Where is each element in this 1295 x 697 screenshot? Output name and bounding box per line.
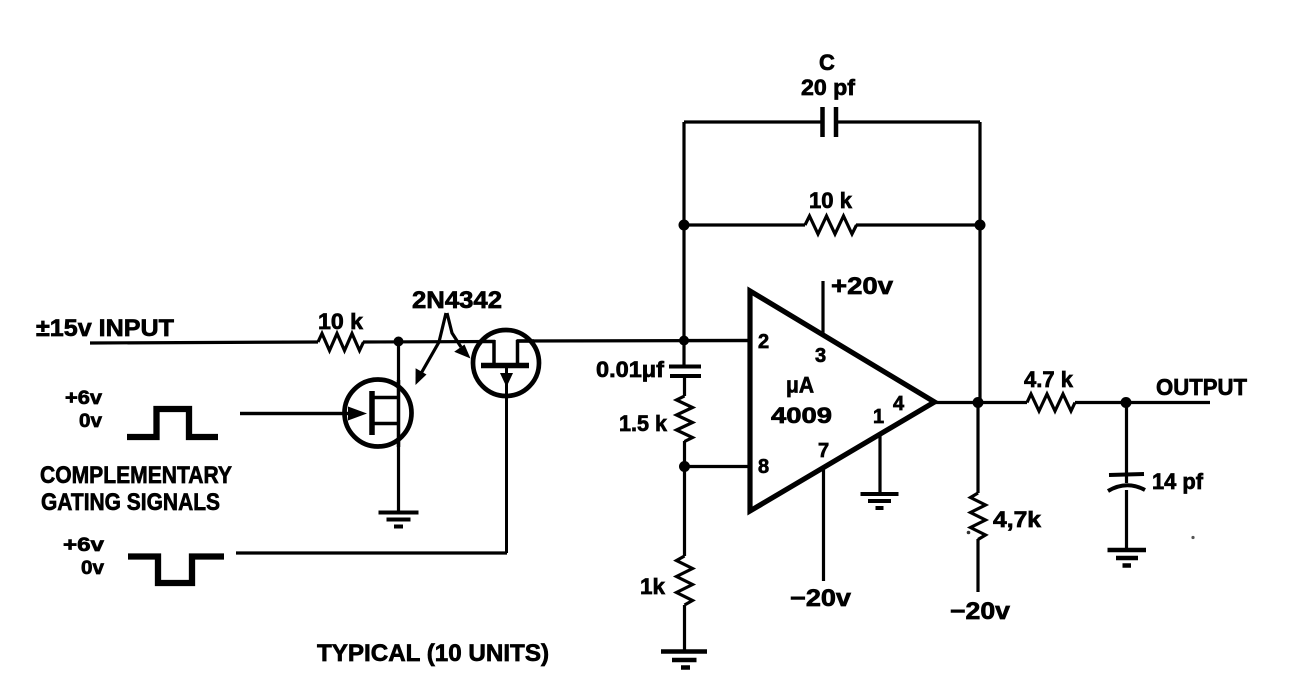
wire node E to pin 8 <box>685 465 751 468</box>
wire R3 to node E <box>683 441 686 467</box>
svg-text:2: 2 <box>758 331 769 353</box>
svg-text:+20v: +20v <box>831 273 894 300</box>
wire input line to Q2 <box>363 340 495 344</box>
wire right feedback vertical <box>978 122 981 403</box>
wire pin 7 -20v lead <box>822 468 825 581</box>
wire 10k feedback right <box>856 223 980 226</box>
svg-text:1k: 1k <box>640 574 666 599</box>
svg-text:4009: 4009 <box>771 403 832 428</box>
node G output junction dot <box>1121 397 1132 408</box>
wire node G down to C3 <box>1125 403 1128 484</box>
svg-text:7: 7 <box>818 440 829 462</box>
ground under Q1 <box>379 513 419 527</box>
wire C2 to R3 <box>683 376 686 396</box>
node C junction dot <box>679 220 690 231</box>
wire input line left <box>90 342 318 343</box>
resistor R6 4.7k to -20v <box>971 493 986 540</box>
svg-text:2N4342: 2N4342 <box>412 287 502 314</box>
wire pin 1 ground lead <box>878 434 881 492</box>
svg-text:GATING SIGNALS: GATING SIGNALS <box>41 489 220 516</box>
wire node B to pin 2 <box>684 339 750 342</box>
svg-text:0.01μf: 0.01μf <box>596 357 665 382</box>
svg-text:μA: μA <box>786 373 814 398</box>
svg-text:0v: 0v <box>79 411 102 432</box>
svg-text:+6v: +6v <box>65 388 102 409</box>
svg-text:4: 4 <box>893 393 905 415</box>
svg-text:C: C <box>819 50 835 75</box>
svg-text:4.7 k: 4.7 k <box>1024 367 1074 392</box>
node D junction dot <box>975 220 986 231</box>
transistor Q1 2N4342 <box>240 380 412 448</box>
capacitor C3 14pf <box>1108 474 1145 491</box>
ground under R4 <box>661 652 707 668</box>
svg-text:−20v: −20v <box>950 598 1011 625</box>
resistor R1 10k input <box>318 334 364 351</box>
wire Q2 to node B <box>517 339 751 343</box>
wire 10k feedback left <box>684 223 805 226</box>
waveform upper gating pulse <box>127 409 218 437</box>
wire node E down to R4 <box>683 467 686 557</box>
svg-text:TYPICAL (10 UNITS): TYPICAL (10 UNITS) <box>317 640 549 667</box>
svg-text:10 k: 10 k <box>809 188 853 213</box>
svg-text:20 pf: 20 pf <box>801 75 856 100</box>
node A junction dot <box>394 337 404 347</box>
wire node B down to C2 <box>682 341 685 367</box>
resistor R2 10k feedback <box>805 216 857 234</box>
svg-text:1.5 k: 1.5 k <box>619 411 668 436</box>
svg-text:0v: 0v <box>81 558 104 579</box>
wire top feedback left <box>684 120 822 123</box>
wire gate Q2 <box>236 551 507 554</box>
ground pin 1 <box>861 494 899 508</box>
resistor R3 1.5k <box>677 396 693 442</box>
capacitor C2 0.01uf <box>669 367 701 377</box>
waveform lower gating pulse <box>128 557 224 584</box>
annotation arrow to Q2 <box>447 313 461 347</box>
node E junction dot <box>679 461 690 472</box>
resistor R4 1k <box>677 556 693 605</box>
wire C3 to ground <box>1125 490 1128 548</box>
svg-text:OUTPUT: OUTPUT <box>1156 374 1247 400</box>
svg-text:COMPLEMENTARY: COMPLEMENTARY <box>40 462 232 489</box>
svg-text:3: 3 <box>815 345 826 367</box>
svg-text:10 k: 10 k <box>318 309 364 334</box>
svg-text:4,7k: 4,7k <box>993 507 1042 532</box>
capacitor C 20pf <box>823 107 837 137</box>
wire pin 3 +20v lead <box>821 281 824 336</box>
wire Q1 drain-source vertical <box>397 342 400 512</box>
svg-text:−20v: −20v <box>790 585 852 612</box>
wire output from apex <box>935 401 1028 404</box>
wire R6 to -20v <box>976 539 979 592</box>
resistor R5 4.7k output <box>1027 394 1075 411</box>
node B junction dot <box>679 336 689 346</box>
wire top feedback right <box>836 120 980 123</box>
svg-text:+6v: +6v <box>63 535 105 556</box>
speck noise <box>1191 536 1194 539</box>
svg-text:±15v INPUT: ±15v INPUT <box>36 315 174 342</box>
node F junction dot <box>973 397 984 408</box>
transistor Q2 2N4342 <box>473 330 539 553</box>
wire gate Q1 <box>240 412 352 415</box>
op-amp U1 uA4009 <box>750 291 935 511</box>
svg-text:8: 8 <box>758 456 769 478</box>
wire R4 to ground <box>683 605 686 651</box>
svg-text:1: 1 <box>873 406 884 428</box>
wire left feedback vertical <box>682 122 685 341</box>
svg-text:14 pf: 14 pf <box>1152 469 1204 494</box>
annotation arrow to Q1 <box>419 313 446 377</box>
wire R5 to output node <box>1075 401 1210 404</box>
wire node F down to R6 <box>976 403 979 494</box>
ground under C3 <box>1108 550 1147 566</box>
